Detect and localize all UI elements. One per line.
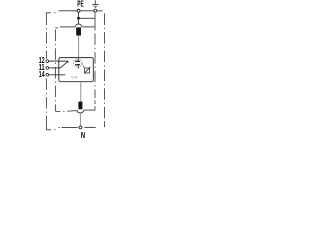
svg-text:PE: PE — [77, 0, 84, 9]
svg-text:N: N — [81, 131, 85, 140]
svg-text:N-PE: N-PE — [71, 75, 78, 79]
svg-text:14: 14 — [39, 70, 45, 79]
